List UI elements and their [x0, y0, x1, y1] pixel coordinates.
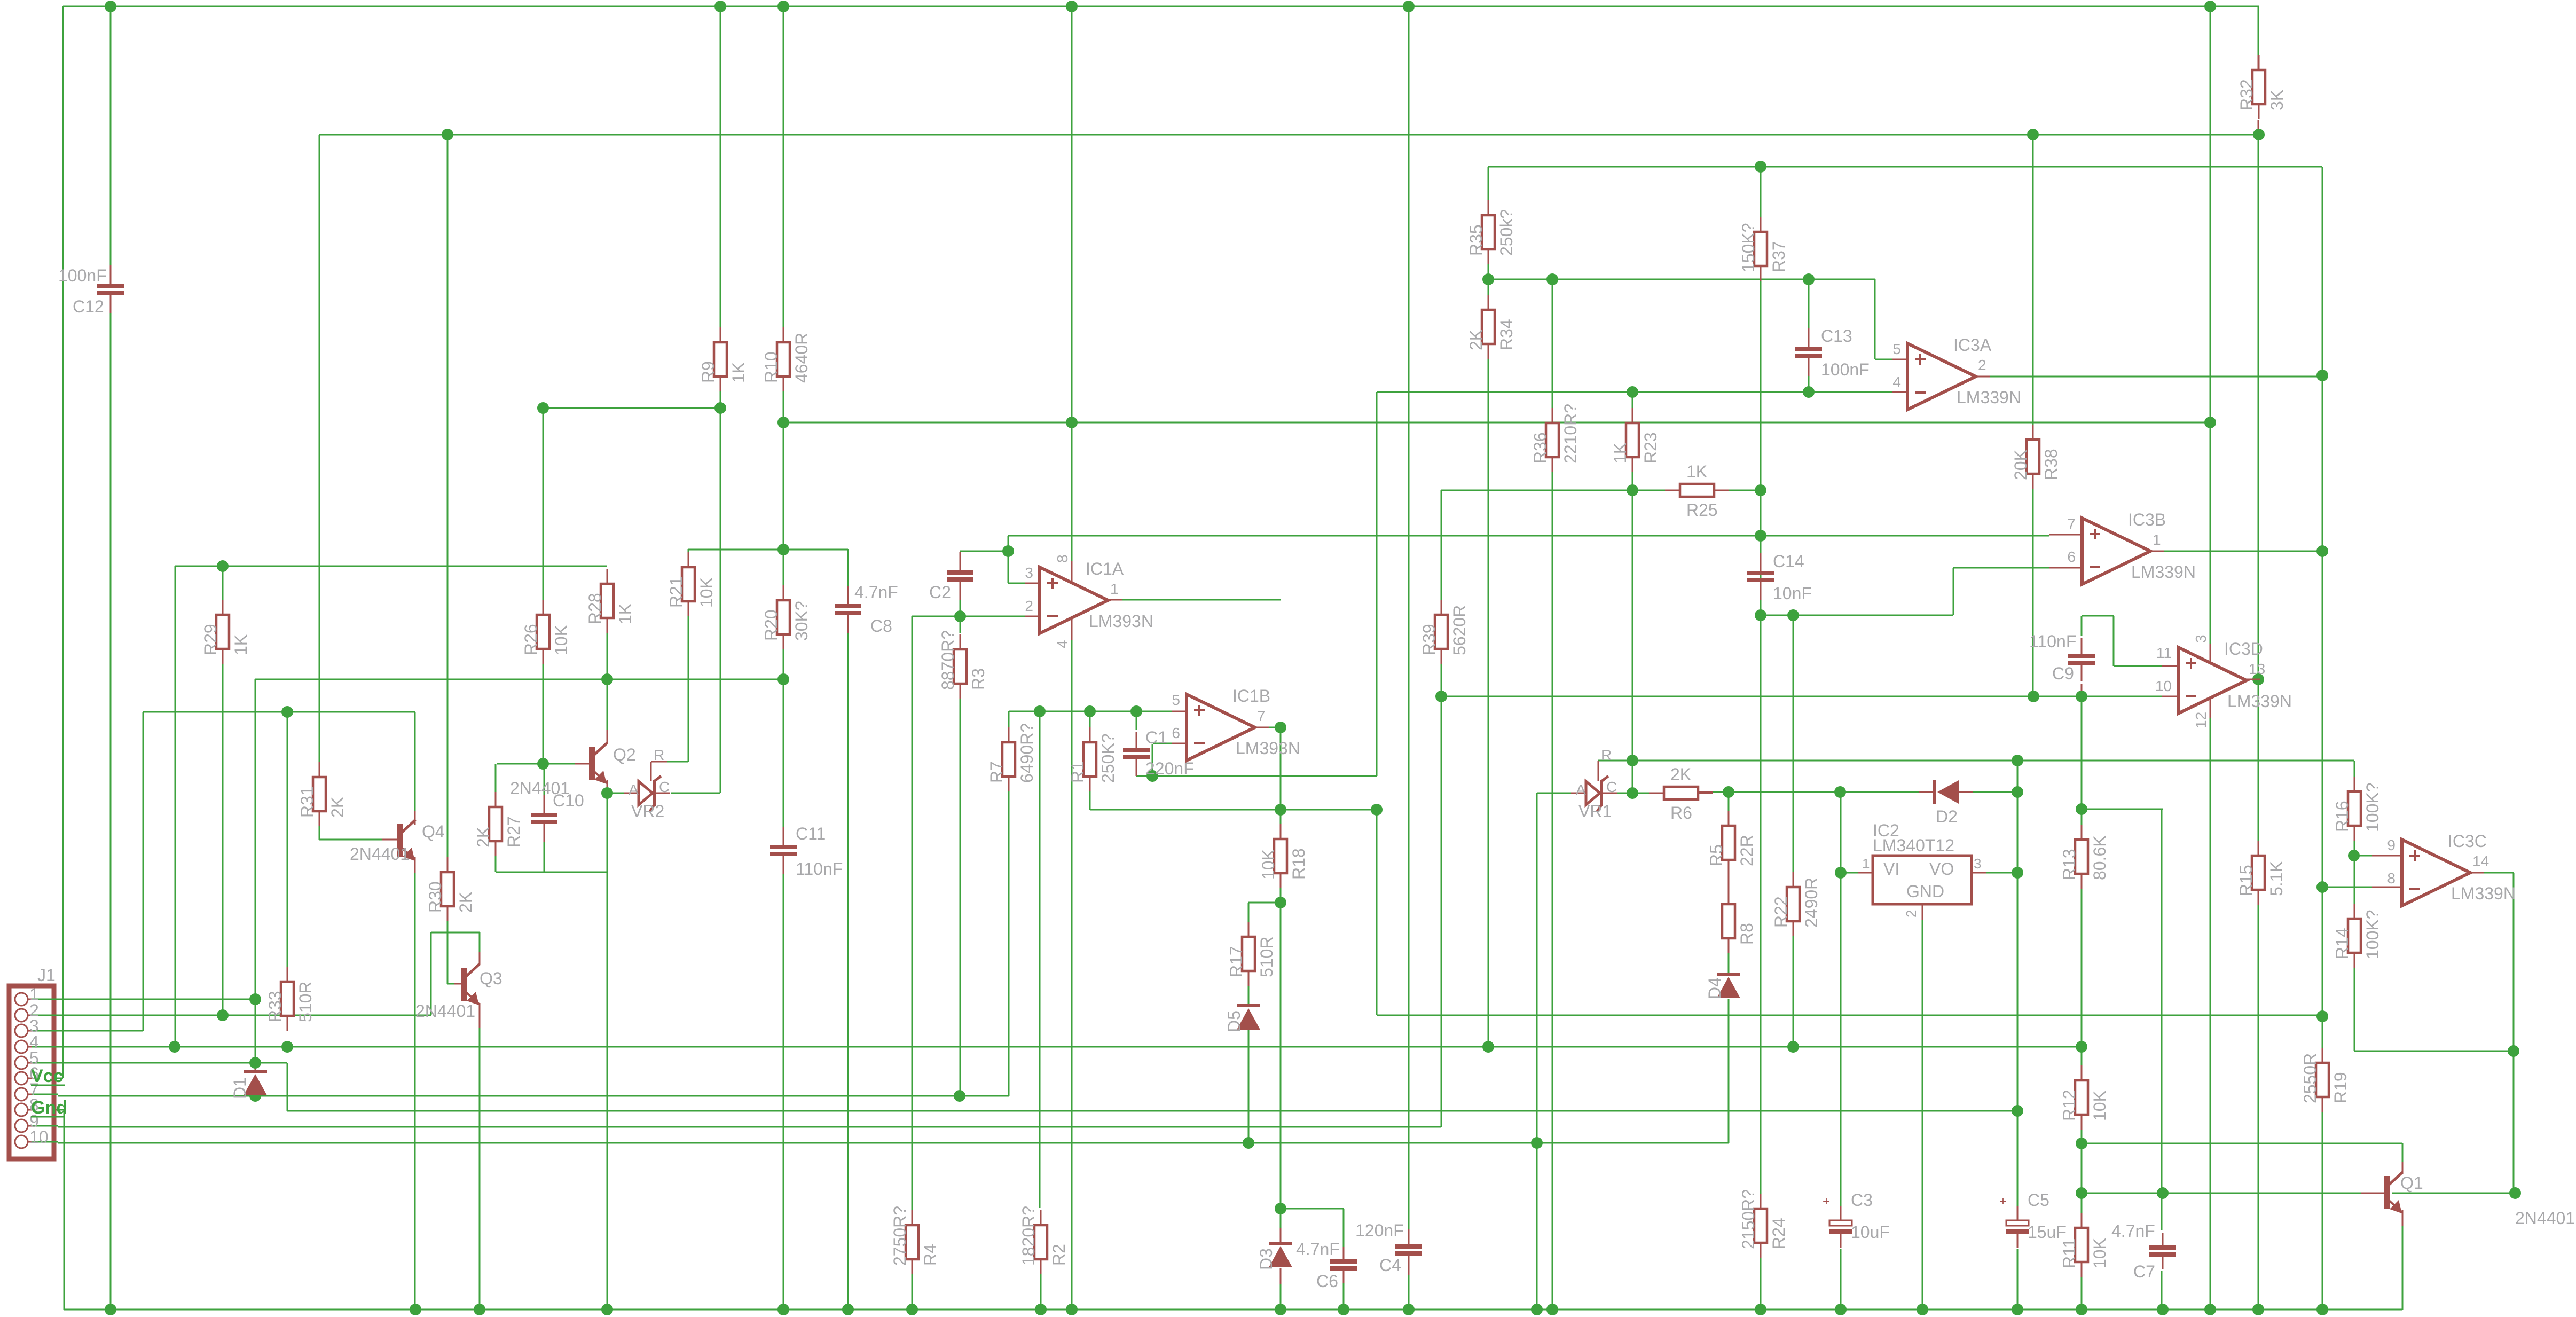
- svg-text:C6: C6: [1316, 1272, 1338, 1291]
- svg-text:IC3C: IC3C: [2448, 832, 2487, 851]
- svg-text:6: 6: [1172, 725, 1180, 741]
- svg-text:R19: R19: [2331, 1072, 2350, 1103]
- svg-text:R3: R3: [969, 668, 988, 690]
- svg-text:5620R: 5620R: [1450, 605, 1469, 655]
- svg-text:R11: R11: [2060, 1238, 2079, 1268]
- svg-text:R21: R21: [666, 576, 686, 608]
- svg-text:10K: 10K: [2090, 1238, 2109, 1268]
- svg-text:13: 13: [2249, 661, 2265, 677]
- svg-text:R29: R29: [201, 624, 220, 655]
- svg-text:J1: J1: [37, 966, 56, 985]
- svg-text:11: 11: [2156, 645, 2172, 661]
- svg-text:5: 5: [1892, 341, 1901, 357]
- svg-text:C8: C8: [870, 616, 892, 636]
- svg-text:Vcc: Vcc: [31, 1066, 64, 1086]
- svg-text:30K?: 30K?: [792, 601, 811, 641]
- svg-text:R5: R5: [1707, 844, 1726, 866]
- svg-text:IC1B: IC1B: [1232, 686, 1270, 705]
- svg-text:D4: D4: [1705, 977, 1724, 999]
- svg-text:110nF: 110nF: [796, 859, 843, 879]
- svg-text:R30: R30: [426, 881, 445, 913]
- svg-text:20K: 20K: [2011, 450, 2030, 480]
- svg-text:1820R?: 1820R?: [1019, 1206, 1038, 1266]
- svg-text:R37: R37: [1769, 241, 1788, 272]
- svg-text:LM393N: LM393N: [1236, 739, 1300, 758]
- svg-text:150K?: 150K?: [1739, 223, 1758, 272]
- svg-text:3: 3: [1974, 856, 1981, 872]
- svg-text:+: +: [1999, 1194, 2007, 1209]
- svg-text:R12: R12: [2060, 1089, 2079, 1121]
- svg-text:LM339N: LM339N: [1957, 388, 2021, 407]
- svg-text:R32: R32: [2237, 79, 2256, 111]
- svg-text:VR1: VR1: [1578, 802, 1612, 821]
- svg-text:R15: R15: [2236, 865, 2256, 896]
- svg-text:4.7nF: 4.7nF: [1296, 1240, 1340, 1259]
- svg-text:R10: R10: [761, 351, 781, 383]
- svg-text:R4: R4: [921, 1244, 940, 1266]
- svg-text:10K: 10K: [697, 577, 716, 608]
- svg-text:2210R?: 2210R?: [1561, 404, 1580, 464]
- svg-text:C13: C13: [1821, 326, 1852, 346]
- svg-text:R2: R2: [1049, 1244, 1069, 1266]
- svg-text:10: 10: [2155, 678, 2172, 694]
- svg-text:R27: R27: [504, 816, 523, 848]
- svg-text:8: 8: [1054, 554, 1071, 563]
- svg-text:100K?: 100K?: [2363, 782, 2382, 832]
- svg-text:4640R: 4640R: [792, 333, 811, 383]
- svg-text:C: C: [659, 779, 670, 795]
- svg-text:510R: 510R: [1257, 937, 1276, 978]
- svg-text:R18: R18: [1289, 848, 1308, 880]
- svg-text:R35: R35: [1466, 224, 1486, 256]
- svg-text:R23: R23: [1641, 432, 1660, 464]
- svg-text:C2: C2: [929, 583, 951, 602]
- svg-text:IC3B: IC3B: [2128, 510, 2166, 529]
- svg-text:R13: R13: [2060, 849, 2079, 880]
- svg-text:C1: C1: [1145, 728, 1167, 747]
- svg-text:R6: R6: [1670, 803, 1692, 822]
- svg-text:IC1A: IC1A: [1086, 559, 1124, 578]
- svg-text:2N4401: 2N4401: [510, 779, 570, 798]
- svg-text:100nF: 100nF: [58, 266, 107, 285]
- svg-text:100K?: 100K?: [2363, 910, 2382, 959]
- svg-text:R17: R17: [1227, 946, 1246, 977]
- svg-text:LM393N: LM393N: [1089, 612, 1153, 631]
- svg-text:IC3D: IC3D: [2224, 639, 2263, 658]
- svg-text:2150R?: 2150R?: [1739, 1189, 1758, 1249]
- svg-text:Gnd: Gnd: [31, 1097, 67, 1118]
- svg-text:R24: R24: [1769, 1218, 1788, 1249]
- svg-text:510R: 510R: [296, 982, 315, 1023]
- svg-text:Q3: Q3: [480, 969, 502, 988]
- svg-text:4.7nF: 4.7nF: [2111, 1221, 2155, 1241]
- svg-text:R39: R39: [1419, 624, 1439, 655]
- svg-text:1: 1: [2153, 531, 2161, 548]
- svg-text:120nF: 120nF: [1355, 1221, 1404, 1240]
- svg-text:R31: R31: [297, 786, 317, 818]
- svg-text:3: 3: [2193, 634, 2209, 643]
- svg-text:C3: C3: [1851, 1190, 1873, 1210]
- svg-text:10: 10: [29, 1127, 49, 1147]
- svg-text:1K: 1K: [1611, 443, 1630, 464]
- svg-text:2K: 2K: [328, 797, 347, 818]
- svg-text:8: 8: [2387, 870, 2396, 887]
- svg-text:2K: 2K: [1670, 765, 1691, 784]
- svg-text:R7: R7: [987, 761, 1006, 783]
- svg-text:D2: D2: [1936, 807, 1958, 826]
- svg-text:9: 9: [2387, 837, 2396, 853]
- svg-text:2: 2: [1978, 357, 1986, 373]
- svg-text:4: 4: [1054, 640, 1071, 648]
- svg-text:LM339N: LM339N: [2131, 562, 2196, 582]
- svg-text:+: +: [1823, 1194, 1830, 1209]
- svg-text:GND: GND: [1906, 882, 1944, 901]
- svg-text:6490R?: 6490R?: [1017, 723, 1036, 783]
- svg-text:R34: R34: [1497, 319, 1516, 350]
- svg-text:2K: 2K: [474, 827, 493, 848]
- svg-text:C11: C11: [796, 824, 826, 843]
- svg-text:1: 1: [1110, 581, 1119, 597]
- svg-text:VO: VO: [1929, 859, 1954, 879]
- svg-text:C5: C5: [2028, 1190, 2049, 1210]
- svg-text:IC3A: IC3A: [1953, 335, 1992, 355]
- svg-text:LM339N: LM339N: [2227, 692, 2292, 711]
- svg-text:110nF: 110nF: [2029, 632, 2076, 651]
- svg-text:2550R: 2550R: [2300, 1053, 2320, 1103]
- svg-text:7: 7: [2067, 515, 2076, 532]
- svg-text:12: 12: [2193, 712, 2209, 728]
- svg-text:R38: R38: [2041, 449, 2061, 480]
- svg-text:LM340T12: LM340T12: [1873, 836, 1954, 855]
- svg-text:10nF: 10nF: [1773, 584, 1812, 603]
- svg-text:8870R?: 8870R?: [938, 630, 957, 690]
- svg-text:R26: R26: [521, 624, 540, 655]
- svg-text:Q2: Q2: [613, 745, 636, 764]
- svg-text:10K: 10K: [2090, 1091, 2109, 1121]
- svg-text:D5: D5: [1224, 1010, 1244, 1032]
- svg-text:R: R: [1601, 747, 1612, 763]
- svg-text:A: A: [1576, 781, 1586, 798]
- svg-text:R25: R25: [1686, 500, 1718, 520]
- svg-text:C14: C14: [1773, 552, 1804, 571]
- svg-text:2750R?: 2750R?: [890, 1206, 909, 1266]
- svg-text:2N4401: 2N4401: [415, 1001, 475, 1021]
- svg-text:R16: R16: [2332, 801, 2352, 832]
- svg-text:R22: R22: [1771, 896, 1790, 928]
- svg-text:C4: C4: [1379, 1256, 1401, 1275]
- svg-text:R28: R28: [585, 593, 604, 624]
- svg-text:3: 3: [1025, 565, 1033, 581]
- svg-text:15uF: 15uF: [2028, 1222, 2067, 1242]
- svg-text:250k?: 250k?: [1497, 209, 1516, 256]
- svg-text:R1: R1: [1068, 761, 1087, 783]
- svg-text:10uF: 10uF: [1851, 1222, 1890, 1242]
- svg-text:R8: R8: [1737, 923, 1756, 945]
- svg-text:2490R: 2490R: [1802, 877, 1821, 928]
- svg-text:A: A: [629, 781, 639, 798]
- svg-text:1K: 1K: [1686, 462, 1707, 481]
- svg-text:C: C: [1606, 779, 1617, 795]
- svg-text:2N4401: 2N4401: [350, 844, 410, 864]
- svg-text:R36: R36: [1530, 432, 1550, 464]
- svg-text:VI: VI: [1883, 859, 1899, 879]
- svg-text:R20: R20: [761, 609, 781, 641]
- svg-text:2: 2: [1903, 910, 1919, 918]
- svg-text:10K: 10K: [1259, 849, 1278, 880]
- svg-text:C7: C7: [2133, 1262, 2155, 1281]
- svg-text:3K: 3K: [2267, 90, 2287, 111]
- svg-text:22R: 22R: [1737, 835, 1756, 866]
- svg-text:2: 2: [1025, 598, 1033, 614]
- svg-text:C12: C12: [73, 297, 104, 316]
- svg-text:10K: 10K: [552, 625, 571, 655]
- svg-text:R14: R14: [2332, 928, 2352, 959]
- svg-text:5: 5: [1172, 692, 1180, 708]
- svg-text:2N4401: 2N4401: [2515, 1209, 2575, 1228]
- svg-text:4: 4: [1892, 374, 1901, 390]
- svg-text:2K: 2K: [1466, 330, 1486, 350]
- svg-text:D1: D1: [230, 1077, 249, 1099]
- svg-text:6: 6: [2067, 548, 2076, 565]
- svg-text:5.1K: 5.1K: [2267, 861, 2286, 896]
- svg-text:R33: R33: [265, 991, 285, 1022]
- svg-text:R9: R9: [698, 361, 718, 383]
- svg-text:1K: 1K: [231, 634, 250, 655]
- svg-text:14: 14: [2472, 853, 2489, 869]
- svg-text:R: R: [654, 747, 664, 763]
- svg-text:80.6K: 80.6K: [2090, 835, 2109, 880]
- svg-text:100nF: 100nF: [1821, 360, 1870, 379]
- svg-text:Q1: Q1: [2400, 1173, 2423, 1193]
- svg-text:1K: 1K: [616, 603, 635, 624]
- svg-text:C9: C9: [2052, 664, 2074, 683]
- svg-text:2K: 2K: [456, 892, 475, 913]
- svg-text:D3: D3: [1256, 1248, 1276, 1270]
- svg-text:250K?: 250K?: [1098, 733, 1118, 783]
- svg-text:VR2: VR2: [631, 802, 664, 821]
- svg-text:LM339N: LM339N: [2451, 884, 2516, 903]
- svg-text:7: 7: [1257, 708, 1266, 724]
- svg-text:1: 1: [1862, 856, 1870, 872]
- svg-text:Q4: Q4: [422, 822, 445, 841]
- svg-text:4.7nF: 4.7nF: [854, 583, 898, 602]
- svg-text:1K: 1K: [729, 362, 748, 383]
